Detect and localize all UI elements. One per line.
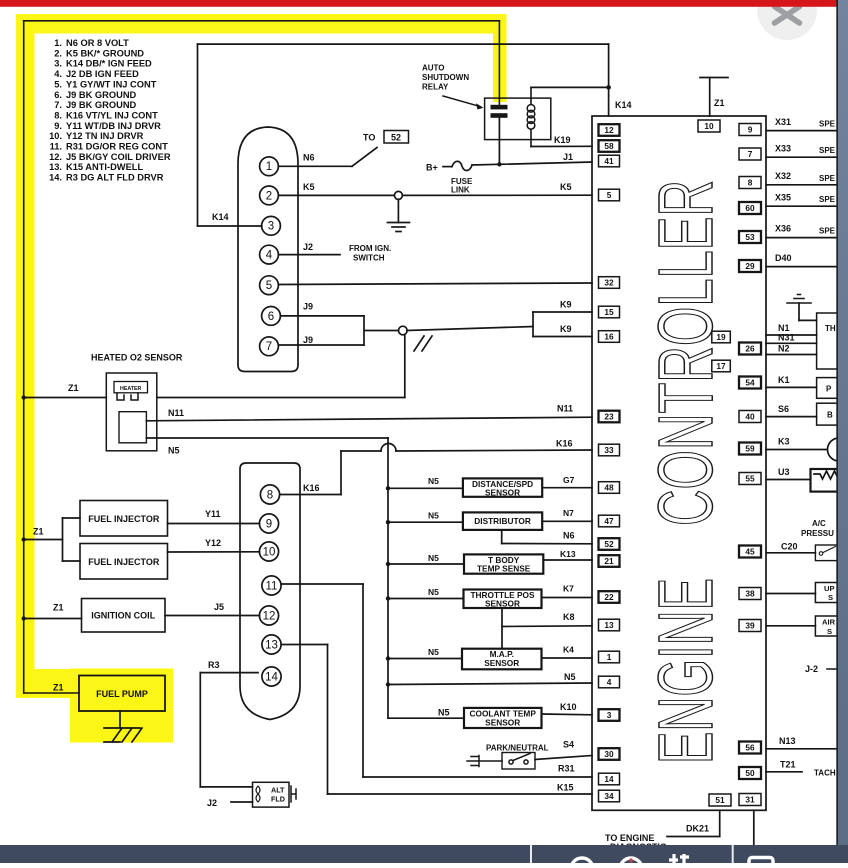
svg-text:8: 8 [748,178,753,188]
svg-text:N7: N7 [563,508,574,518]
svg-text:15: 15 [604,307,614,317]
svg-text:AUTO: AUTO [422,64,445,73]
svg-text:HEATED O2 SENSOR: HEATED O2 SENSOR [91,353,183,363]
controller pin 9 [739,124,761,136]
box P (clipped) [817,378,839,399]
svg-text:N6 OR 8 VOLT: N6 OR 8 VOLT [66,38,129,48]
O2 sensor body [106,373,157,451]
svg-text:33: 33 [604,445,614,455]
wire N13 riser (clipped) [837,700,839,749]
svg-text:S: S [827,627,832,636]
svg-text:N1: N1 [778,323,790,333]
wire U3 [766,479,811,481]
svg-text:1: 1 [607,652,612,662]
wire R31 riser [362,584,364,777]
svg-text:K7: K7 [563,584,574,594]
svg-text:Y11 WT/DB INJ DRVR: Y11 WT/DB INJ DRVR [66,121,161,131]
svg-text:12: 12 [263,610,276,622]
wire K15 riser [327,645,329,795]
svg-text:X31: X31 [775,117,791,127]
MAP sensor [462,649,542,670]
connector C1 pin 6 [262,307,281,326]
controller pin 58 [599,140,620,152]
svg-text:U3: U3 [778,467,790,477]
wire R3 drop [199,673,201,787]
wire into TPS box [799,319,817,321]
resistor box U3 [811,469,839,492]
svg-text:3: 3 [607,710,612,720]
wire X33 (speed control) [766,156,838,158]
reference box 52 [384,131,409,144]
wire to up-shift box [766,593,815,595]
wire coil bottom (K19) [530,129,532,146]
svg-text:22: 22 [604,592,614,602]
relay contact plates [491,105,508,110]
wire J9 to splice [364,330,399,332]
controller pin 59 [739,443,761,455]
ground symbol (right) [787,295,811,304]
svg-text:51: 51 [715,795,725,805]
wire K10 to pin 3 [542,713,593,716]
svg-text:N2: N2 [778,344,790,354]
wire throttle to MAP [501,608,503,649]
svg-text:K14: K14 [212,212,229,222]
svg-text:13: 13 [265,639,278,651]
switch contact [819,552,823,556]
distance/speed sensor [463,478,542,496]
connector C2 pin 10 [259,542,278,561]
park/neutral switch box [502,753,535,770]
svg-text:X33: X33 [775,144,791,154]
O2 sense element [119,412,146,443]
svg-text:7: 7 [266,341,272,353]
svg-text:N5: N5 [428,476,439,486]
svg-text:SENSOR: SENSOR [485,717,520,727]
wire N31 [766,342,817,344]
controller pin 3 [599,709,620,721]
switch contacts [509,760,513,764]
controller pin 47 [599,515,620,527]
svg-text:DK21: DK21 [686,824,709,834]
controller pin 22 [599,591,620,603]
wire N13 [766,748,838,750]
connector C1 pin 7 [260,337,279,356]
right side strip [836,0,838,863]
connector C1 pin 5 [260,276,279,295]
svg-text:N11: N11 [168,408,184,418]
wire D40 [766,266,838,268]
wire N1 [766,334,817,336]
fuse link symbol [452,161,472,170]
svg-text:J9: J9 [303,335,313,345]
wire K8 to pin 13 [502,625,592,628]
svg-text:SPE: SPE [819,146,836,155]
svg-text:J2: J2 [207,798,217,808]
svg-text:SENSOR: SENSOR [484,658,519,668]
wire N5 branch [388,563,464,565]
wire R31 to pin 14 [363,776,592,778]
svg-text:K5: K5 [303,182,315,192]
throttle body temp sensor [464,554,543,573]
wire K14 top run [198,43,609,45]
controller pin 48 [599,482,620,494]
wire K14 into controller [608,87,610,116]
svg-text:38: 38 [745,589,755,599]
svg-text:PARK/NEUTRAL: PARK/NEUTRAL [486,744,549,753]
controller pin 13 [599,619,620,631]
svg-text:FUEL INJECTOR: FUEL INJECTOR [88,557,160,567]
svg-text:16: 16 [604,332,614,342]
svg-text:K16 VT/YL INJ CONT: K16 VT/YL INJ CONT [66,111,158,121]
svg-text:12: 12 [604,125,614,135]
svg-text:6.: 6. [54,90,62,100]
controller pin 41 [599,155,620,167]
svg-text:CONTROLLER: CONTROLLER [643,180,729,526]
junction relay/B+ [497,162,501,166]
svg-text:N5: N5 [428,647,439,657]
svg-text:31: 31 [745,795,755,805]
svg-text:UP: UP [824,584,835,593]
svg-text:N31: N31 [778,333,795,343]
svg-text:FUEL PUMP: FUEL PUMP [96,689,148,699]
wire N6 diagonal [352,148,377,167]
connector C2 pin 9 [259,514,278,533]
junction N5/pin4 [386,682,390,686]
O2 heater box [114,382,148,393]
wire splice to K9 pair [407,327,533,331]
svg-text:S6: S6 [778,404,789,414]
legend: connector pin list [49,38,171,183]
svg-text:4: 4 [607,677,612,687]
svg-text:TH: TH [825,324,836,333]
svg-text:52: 52 [604,539,614,549]
svg-text:K5 BK/* GROUND: K5 BK/* GROUND [66,48,144,58]
toolbar icon: magnifier [571,858,593,868]
controller pin 52 [599,538,620,550]
wire K1 [766,386,817,388]
controller pin 12 [599,124,620,136]
controller pin 21 [599,555,620,567]
box AIR S (clipped) [815,616,838,636]
coolant temp sensor [464,708,542,728]
controller pin 1 [599,651,620,663]
wire DK21 run [667,836,720,838]
svg-text:50: 50 [745,768,755,778]
svg-text:J2 DB IGN FEED: J2 DB IGN FEED [66,69,139,79]
lamp (K3, clipped) [828,438,848,461]
connector C2 body [240,463,300,720]
wire N5 branch [388,521,463,523]
wire J9 from pin 6 [281,315,365,317]
wire K14 down to junction [608,44,610,87]
svg-text:K14 DB/* IGN FEED: K14 DB/* IGN FEED [66,59,152,69]
controller pin 29 [739,260,761,272]
svg-text:K10: K10 [560,702,577,712]
wire N5 from O2 [146,437,388,439]
controller pin 7 [739,148,761,160]
svg-text:11: 11 [266,580,278,592]
svg-text:14: 14 [265,671,278,683]
close button (X) [757,0,817,40]
svg-text:Y1 GY/WT INJ CONT: Y1 GY/WT INJ CONT [66,79,157,89]
svg-text:14: 14 [604,774,614,784]
wire pin 5 to pin 32 [279,283,593,285]
svg-text:30: 30 [604,749,614,759]
svg-text:SWITCH: SWITCH [353,254,385,263]
chassis ground (fuel pump) [104,728,142,742]
svg-text:DISTRIBUTOR: DISTRIBUTOR [474,516,531,526]
wire from pin 31 down [753,810,755,845]
controller pin 33 [599,444,620,456]
wire K16 to pin 33 [396,450,592,451]
wire N5 bus [387,438,389,718]
controller pin 23 [599,411,620,423]
wire Y12 to pin 10 [168,551,260,553]
wire K13 [543,559,592,561]
svg-text:4.: 4. [54,69,62,79]
wire Z1 injector feed [24,539,63,541]
svg-text:48: 48 [604,483,614,493]
svg-text:ENGINE: ENGINE [643,578,729,764]
controller pin 16 [599,331,620,343]
svg-text:14.: 14. [49,173,62,183]
wire K5 to pin 5 [403,194,593,196]
svg-text:29: 29 [745,261,755,271]
svg-text:N5: N5 [428,587,439,597]
svg-text:K9: K9 [560,300,572,310]
distributor [463,512,542,530]
wire relay contact to B+ line [498,118,500,164]
wire K5 from pin 2 [279,194,395,196]
fuel pump [79,676,165,712]
wire N5 to pin 4 [388,683,592,685]
svg-text:R31: R31 [558,764,575,774]
svg-text:J9 BK GROUND: J9 BK GROUND [66,90,137,100]
controller pin 51 [709,794,731,806]
chassis ground hash [414,336,432,351]
wire N7 [542,520,592,522]
svg-text:K5: K5 [560,182,572,192]
controller pin 50 [739,767,761,779]
svg-text:SHUTDOWN: SHUTDOWN [422,73,469,82]
wire J9 from pin 7 [279,344,365,346]
wire K15 from pin 13 [281,644,328,646]
svg-text:13: 13 [604,620,614,630]
wire S6 [766,416,817,418]
svg-text:J2: J2 [303,242,313,252]
controller pin 45 [739,546,761,558]
svg-text:12.: 12. [49,152,62,162]
svg-text:FLD: FLD [271,795,285,804]
svg-text:5.: 5. [54,79,62,89]
svg-text:K8: K8 [563,612,575,622]
svg-text:B: B [827,411,833,420]
bottom toolbar [0,845,848,863]
highlighted wire Z1 (yellow marker overlay) [16,14,507,743]
controller pin 14 [599,773,620,785]
wire N5 branch [388,658,462,660]
svg-text:4: 4 [266,250,273,262]
svg-text:J5 BK/GY COIL DRIVER: J5 BK/GY COIL DRIVER [66,152,171,162]
wire K16 riser [340,451,342,495]
toolbar icon: sliders [669,854,689,863]
wire injector bracket [62,518,64,561]
wire N6 drop [501,530,503,544]
svg-text:40: 40 [745,412,755,422]
wire K3 [766,449,827,451]
resistor element [814,471,842,479]
alternator field box [253,782,290,807]
svg-text:58: 58 [604,141,614,151]
junction Z1/O2 [22,395,26,399]
wire N5 branch [388,598,464,600]
wire Z1 to O2 heater [24,397,107,399]
wire Z1 sense into controller [709,78,711,117]
svg-text:10: 10 [704,121,714,131]
svg-text:K19: K19 [554,135,571,145]
wire relay coil to K14 [531,86,609,88]
controller pin 17 [712,360,731,372]
svg-text:13.: 13. [49,162,62,172]
svg-text:P: P [826,385,832,394]
wire N11 to pin 23 [146,417,592,421]
controller pin 38 [739,588,761,600]
svg-text:39: 39 [745,621,755,631]
svg-text:N5: N5 [168,446,180,456]
controller pin 55 [739,473,761,485]
svg-text:2.: 2. [54,48,62,58]
fuel injector 1 [80,501,168,537]
connector C2 pin 12 [259,606,278,625]
alt field terminal [291,786,296,802]
connector C2 pin 11 [262,576,281,595]
svg-text:N6: N6 [303,153,315,163]
connector C1 pin 4 [260,245,279,264]
wire S4 to pin 30 [535,756,592,760]
svg-text:47: 47 [604,516,614,526]
A/C pressure switch box [815,545,838,561]
svg-text:3.: 3. [54,59,62,69]
controller pin 39 [739,620,761,632]
svg-text:A/C: A/C [812,519,826,528]
svg-text:Y12 TN INJ DRVR: Y12 TN INJ DRVR [66,131,144,141]
wire K19 to pin 58 [531,145,592,147]
ground symbol (K5) [388,199,410,231]
svg-text:RELAY: RELAY [422,83,449,92]
wire J2 to alt field [231,801,253,803]
svg-text:7: 7 [748,149,753,159]
svg-text:Z1: Z1 [33,527,44,537]
controller pin 4 [599,676,620,688]
controller pin 10 [698,120,720,132]
svg-text:34: 34 [604,791,614,801]
wire X35 (speed control) [766,205,838,207]
svg-text:FROM IGN.: FROM IGN. [349,244,391,253]
svg-text:K4: K4 [563,645,574,655]
wire J5 to pin 12 [165,615,260,617]
controller pin 53 [739,231,761,243]
svg-text:9: 9 [266,518,272,530]
svg-text:Y12: Y12 [205,538,221,548]
controller pin 31 [739,794,761,806]
wire J1 to pin 41 [472,162,592,165]
svg-text:S: S [828,593,833,602]
svg-text:ALT: ALT [271,786,285,795]
svg-text:LINK: LINK [451,186,470,195]
svg-text:G7: G7 [563,475,575,485]
connector C1 pin 2 [260,186,279,205]
wire K15 to pin 34 [328,793,593,795]
wire to air-switch box [766,625,815,627]
wire X31 (speed control) [766,130,838,132]
svg-text:59: 59 [745,444,755,454]
wire G7 [542,487,592,489]
svg-text:6: 6 [268,311,274,323]
splice ground J9 [399,326,408,335]
svg-text:55: 55 [745,474,755,484]
connector C1 body [238,127,298,372]
connector C1 pin 3 [262,216,281,235]
wire R3 from pin 14 [200,672,258,674]
svg-text:HEATER: HEATER [120,386,142,392]
wire J2 from pin 4 [279,254,341,256]
svg-text:N11: N11 [557,404,573,414]
wire X36 (speed control) [766,237,838,239]
junction Z1/injectors [22,537,26,541]
engine controller vertical title [643,180,729,764]
heater terminals [117,393,138,400]
box B (clipped) [817,403,839,425]
controller pin 5 [599,189,620,201]
svg-text:32: 32 [604,278,614,288]
svg-text:FUEL INJECTOR: FUEL INJECTOR [88,514,160,524]
svg-text:K15: K15 [557,783,574,793]
svg-text:J1: J1 [563,152,573,162]
wire heater return run [157,397,405,399]
svg-text:S4: S4 [563,740,574,750]
svg-text:Y11: Y11 [205,509,221,519]
svg-text:K3: K3 [778,437,790,447]
svg-text:X35: X35 [775,193,791,203]
svg-text:10: 10 [263,546,276,558]
wire hop over N5 bus [381,444,396,452]
svg-text:R3 DG ALT FLD DRVR: R3 DG ALT FLD DRVR [66,173,164,183]
controller pin 26 [739,343,761,355]
wire DK21 drop [719,810,721,836]
toolbar icon: alert circle [620,858,642,868]
svg-text:9.: 9. [54,121,62,131]
wire K9 bracket [532,312,534,337]
relay box [485,98,551,140]
svg-text:54: 54 [745,378,755,388]
svg-text:TEMP SENSE: TEMP SENSE [477,564,531,574]
throttle position sensor [464,590,542,609]
svg-text:3: 3 [268,221,274,233]
controller pin 40 [739,411,761,423]
svg-text:1.: 1. [54,38,62,48]
ground comb (park/neutral) [467,756,479,767]
controller pin 56 [739,742,761,754]
red header bar [0,0,838,7]
svg-text:R31 DG/OR REG CONT: R31 DG/OR REG CONT [66,142,168,152]
controller pin 54 [739,377,761,389]
wire N2 [766,354,817,356]
svg-text:X36: X36 [775,224,791,234]
svg-text:Z1: Z1 [53,683,64,693]
wire T21 [766,771,802,773]
svg-text:Z1: Z1 [68,383,79,393]
wire Z1 left run [23,21,25,693]
